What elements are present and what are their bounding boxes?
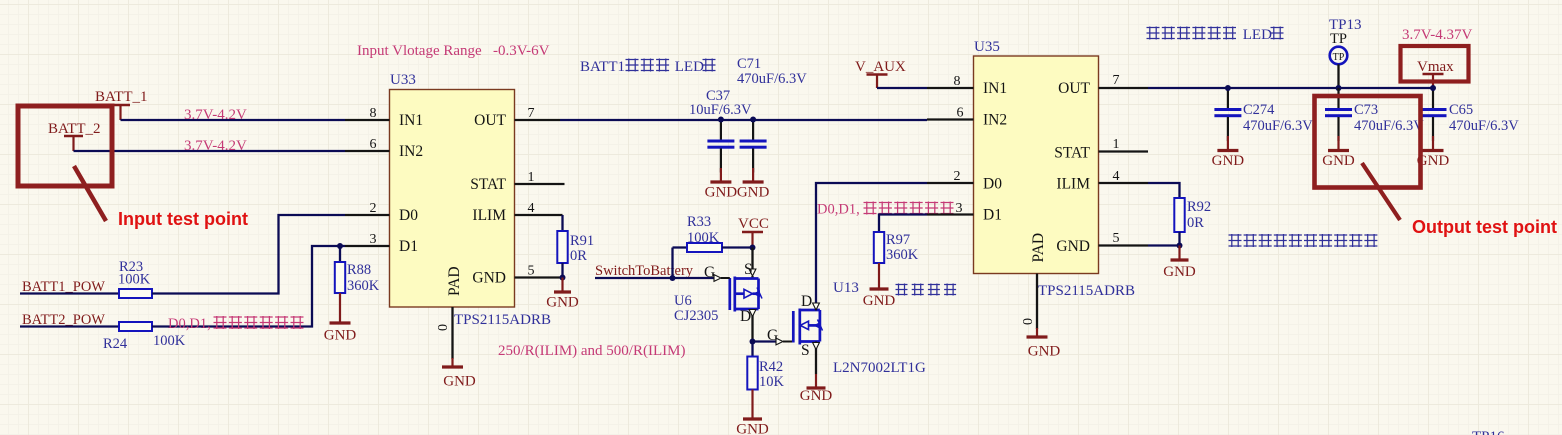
U13 gate arrow [776, 338, 783, 345]
svg-text:BATT_1: BATT_1 [95, 89, 148, 105]
U35 pin names [983, 80, 1091, 263]
svg-text:GND: GND [472, 270, 506, 287]
svg-text:8: 8 [370, 106, 377, 121]
svg-text:TP: TP [1330, 31, 1347, 47]
svg-text:D0: D0 [983, 176, 1002, 193]
U33 pin 8 [345, 119, 390, 121]
wire SwitchToBattery to U6 gate [595, 277, 714, 279]
svg-text:C274: C274 [1243, 102, 1275, 118]
svg-text:4: 4 [1113, 169, 1120, 184]
ground under U33 PAD [451, 358, 453, 367]
svg-text:1: 1 [528, 170, 535, 185]
svg-text:SwitchToBattery: SwitchToBattery [595, 263, 694, 279]
svg-text:D0,D1,: D0,D1, [817, 202, 860, 218]
svg-text:ILIM: ILIM [472, 207, 506, 224]
capacitor C73 [1337, 88, 1339, 108]
ground under C71 [752, 168, 754, 182]
label remove current-limit resistor comment [1229, 234, 1242, 247]
wire to U13 gate [753, 340, 777, 342]
ground under U13 [815, 374, 817, 388]
U13 source wire [815, 342, 817, 375]
svg-text:8: 8 [954, 74, 961, 89]
resistor R91 [557, 231, 567, 263]
svg-text:GND: GND [863, 293, 896, 309]
ground under C65 [1432, 136, 1434, 151]
resistor R33 [673, 246, 688, 248]
U6 drain pin arrow [749, 310, 756, 317]
svg-text:6: 6 [957, 106, 964, 121]
svg-text:U13: U13 [833, 280, 859, 296]
U35 pin 3 [927, 213, 974, 215]
svg-text:7: 7 [528, 106, 535, 121]
junction TP13/C73 [1336, 85, 1342, 91]
svg-text:CJ2305: CJ2305 [674, 308, 718, 324]
svg-text:470uF/6.3V: 470uF/6.3V [1449, 118, 1519, 134]
U35 pin 6 [927, 118, 974, 120]
svg-text:2: 2 [954, 169, 961, 184]
junction VCC/R33 [750, 245, 756, 251]
U33 PAD pin wire [451, 307, 453, 359]
ground under C73 [1337, 136, 1339, 151]
svg-text:5: 5 [1113, 231, 1120, 246]
svg-text:4: 4 [528, 201, 535, 216]
capacitor C65 [1432, 88, 1434, 108]
svg-text:OUT: OUT [1058, 80, 1090, 97]
wire R23 to U33 D0 [152, 215, 345, 294]
capacitor C71 [752, 120, 754, 140]
svg-text:0: 0 [1021, 318, 1036, 325]
U33 pin 4 ILIM [515, 214, 563, 216]
svg-text:STAT: STAT [470, 176, 506, 193]
svg-text:R92: R92 [1187, 199, 1211, 215]
wire to R42 [751, 342, 753, 357]
svg-text:OUT: OUT [474, 112, 506, 129]
resistor R42 [747, 357, 757, 390]
svg-text:100K: 100K [153, 333, 186, 349]
svg-text:D0: D0 [399, 207, 418, 224]
svg-text:V_AUX: V_AUX [855, 59, 906, 75]
annotation box input test point [18, 106, 112, 186]
svg-text:U33: U33 [390, 72, 416, 88]
wire R92 to pin5 [1178, 232, 1180, 246]
label solar LED comment [1147, 27, 1160, 40]
svg-text:GND: GND [705, 185, 738, 201]
svg-text:U35: U35 [974, 39, 1000, 55]
svg-text:PAD: PAD [1030, 233, 1047, 263]
svg-text:100K: 100K [687, 230, 720, 246]
ground under R88 [339, 293, 341, 323]
svg-text:IN1: IN1 [399, 112, 423, 129]
IC U35 body [974, 56, 1099, 274]
wire U6 drain down [751, 309, 753, 342]
svg-text:Vmax: Vmax [1417, 59, 1454, 75]
svg-text:G: G [767, 327, 778, 344]
U33 pin 3 [345, 245, 390, 247]
ground under R97 [878, 263, 880, 289]
svg-text:GND: GND [800, 388, 833, 404]
svg-text:6: 6 [370, 137, 377, 152]
junction C71 [750, 117, 756, 123]
U33 pin 2 [345, 214, 390, 216]
svg-text:VCC: VCC [738, 216, 769, 232]
svg-text:7: 7 [1113, 73, 1120, 88]
svg-text:S: S [744, 261, 753, 278]
svg-text:C71: C71 [737, 56, 761, 72]
svg-text:3.7V-4.2V: 3.7V-4.2V [184, 107, 247, 123]
U33 pin 7 OUT [515, 119, 561, 121]
svg-text:470uF/6.3V: 470uF/6.3V [737, 71, 807, 87]
svg-text:D1: D1 [399, 238, 418, 255]
svg-text:GND: GND [1322, 153, 1355, 169]
svg-text:470uF/6.3V: 470uF/6.3V [1243, 118, 1313, 134]
U6 source pin arrow [749, 269, 756, 276]
svg-text:GND: GND [546, 295, 579, 311]
annotation box output test point [1315, 96, 1421, 188]
svg-text:5: 5 [528, 264, 535, 279]
svg-text:BATT1: BATT1 [580, 59, 625, 75]
svg-text:GND: GND [1212, 153, 1245, 169]
U35 PAD pin wire [1036, 274, 1038, 330]
ground under R42 [751, 390, 753, 420]
svg-text:R97: R97 [886, 232, 910, 248]
svg-text:0R: 0R [570, 248, 587, 264]
svg-text:Output test point: Output test point [1412, 217, 1557, 237]
svg-text:TP16: TP16 [1472, 429, 1505, 435]
wire U35 ILIM to R92 [1148, 183, 1180, 198]
svg-text:BATT_2: BATT_2 [48, 121, 101, 137]
wire up to R33 [671, 248, 673, 279]
svg-text:2: 2 [370, 201, 377, 216]
transistor U6 CJ2305 [730, 277, 759, 312]
ground under U35 PAD [1036, 328, 1038, 337]
svg-text:LED: LED [1239, 27, 1272, 43]
svg-text:G: G [704, 264, 715, 281]
svg-text:TPS2115ADRB: TPS2115ADRB [1038, 283, 1135, 299]
wire U33 OUT to U35 IN2 [560, 119, 927, 121]
svg-text:250/R(ILIM) and 500/R(ILIM): 250/R(ILIM) and 500/R(ILIM) [498, 343, 685, 359]
svg-text:3.7V-4.37V: 3.7V-4.37V [1402, 27, 1472, 43]
svg-text:U6: U6 [674, 293, 692, 309]
junction C37 [718, 117, 724, 123]
svg-text:GND: GND [1028, 344, 1061, 360]
svg-text:GND: GND [324, 328, 357, 344]
svg-text:D1: D1 [983, 207, 1002, 224]
U33 pin 5 GND [515, 276, 563, 278]
IC U33 body [390, 90, 515, 308]
svg-text:R24: R24 [103, 336, 128, 352]
svg-text:1: 1 [1113, 137, 1120, 152]
U13 drain pin arrow [813, 303, 820, 310]
svg-text:IN2: IN2 [399, 143, 423, 160]
svg-text:0R: 0R [1187, 215, 1204, 231]
svg-text:C65: C65 [1449, 102, 1473, 118]
U6 gate arrow [714, 275, 721, 282]
svg-text:GND: GND [736, 422, 769, 435]
U35 pin 2 [927, 182, 974, 184]
U35 pin 5 GND [1099, 244, 1149, 246]
svg-text:3: 3 [370, 232, 377, 247]
wire BATT_1 to U33 IN1 [121, 119, 346, 121]
svg-text:ILIM: ILIM [1056, 176, 1090, 193]
svg-text:0: 0 [436, 324, 451, 331]
svg-text:Input Vlotage Range -0.3V-6V: Input Vlotage Range -0.3V-6V [357, 43, 550, 59]
wire U35 D1 to R97 [879, 215, 927, 233]
svg-text:IN1: IN1 [983, 80, 1007, 97]
ground under C37 [720, 168, 722, 182]
ground under R92 [1178, 246, 1180, 261]
U35 pin 1 STAT [1099, 150, 1149, 152]
U35 pin 7 OUT [1099, 87, 1149, 89]
svg-text:TP: TP [1333, 52, 1345, 63]
ground under C274 [1227, 136, 1229, 151]
svg-text:C73: C73 [1354, 102, 1378, 118]
svg-text:IN2: IN2 [983, 112, 1007, 129]
svg-text:PAD: PAD [446, 266, 463, 296]
capacitor C274 [1227, 88, 1229, 108]
svg-text:L2N7002LT1G: L2N7002LT1G [833, 360, 926, 376]
svg-text:GND: GND [1163, 264, 1196, 280]
resistor R24 [119, 322, 152, 331]
U33 pin names [399, 112, 507, 296]
svg-text:R88: R88 [347, 262, 371, 278]
junction pin5/R91 [560, 275, 566, 281]
transistor U13 L2N7002 [793, 309, 820, 345]
U13 source pin arrow [813, 343, 820, 350]
wire R24 to U33 D1 [152, 246, 345, 327]
svg-text:R91: R91 [570, 233, 594, 249]
resistor R88 [339, 246, 341, 262]
svg-text:360K: 360K [347, 278, 380, 294]
wire R91 to GND junction [561, 263, 563, 278]
label auto switch [896, 284, 908, 296]
annotation diagonal line (output) [1362, 163, 1400, 220]
ground under U33 pin5 [561, 278, 563, 293]
resistor R97 [874, 232, 884, 263]
wire VCC to U6 source [751, 248, 753, 271]
svg-text:Input test point: Input test point [118, 209, 248, 229]
capacitor C37 [720, 120, 722, 140]
svg-text:LED: LED [671, 59, 704, 75]
svg-text:3: 3 [956, 201, 963, 216]
svg-text:R33: R33 [687, 214, 711, 230]
wire BATT1_POW to R23 [20, 292, 119, 294]
junction Vmax/C65 [1430, 85, 1436, 91]
svg-text:360K: 360K [886, 247, 919, 263]
svg-text:TPS2115ADRB: TPS2115ADRB [454, 312, 551, 328]
wire ILIM to R91 [561, 215, 563, 231]
svg-text:GND: GND [737, 185, 770, 201]
svg-text:100K: 100K [118, 272, 151, 288]
svg-text:R42: R42 [759, 359, 783, 375]
U35 pin 4 ILIM [1099, 182, 1149, 184]
svg-text:D: D [801, 293, 812, 310]
wire U13 drain to U35 D0 [816, 183, 927, 310]
svg-text:10K: 10K [759, 374, 785, 390]
svg-text:S: S [801, 342, 810, 359]
wire BATT2_POW to R24 [20, 325, 119, 327]
resistor R92 [1174, 198, 1184, 232]
junction U6 drain / R42 / U13 gate [750, 339, 756, 345]
svg-text:GND: GND [443, 374, 476, 390]
junction D1/R88 [337, 243, 343, 249]
U33 pin 6 [345, 150, 390, 152]
annotation box Vmax [1401, 46, 1469, 82]
U35 pin 8 [927, 87, 974, 89]
svg-text:GND: GND [1056, 238, 1090, 255]
junction R92/pin5 [1177, 243, 1183, 249]
U33 pin 1 STAT [515, 183, 565, 185]
wire BATT_2 to U33 IN2 [74, 150, 346, 152]
junction SwitchToBattery/R33 [670, 275, 676, 281]
svg-text:D0,D1,: D0,D1, [168, 316, 211, 332]
svg-text:470uF/6.3V: 470uF/6.3V [1354, 118, 1424, 134]
svg-text:STAT: STAT [1054, 145, 1090, 162]
wire U35 OUT to Vmax [1148, 87, 1433, 89]
svg-text:10uF/6.3V: 10uF/6.3V [689, 102, 752, 118]
svg-text:3.7V-4.2V: 3.7V-4.2V [184, 138, 247, 154]
resistor R23 [119, 289, 152, 298]
annotation diagonal line [74, 166, 106, 221]
wire V_AUX to U35 IN1 [877, 87, 927, 89]
